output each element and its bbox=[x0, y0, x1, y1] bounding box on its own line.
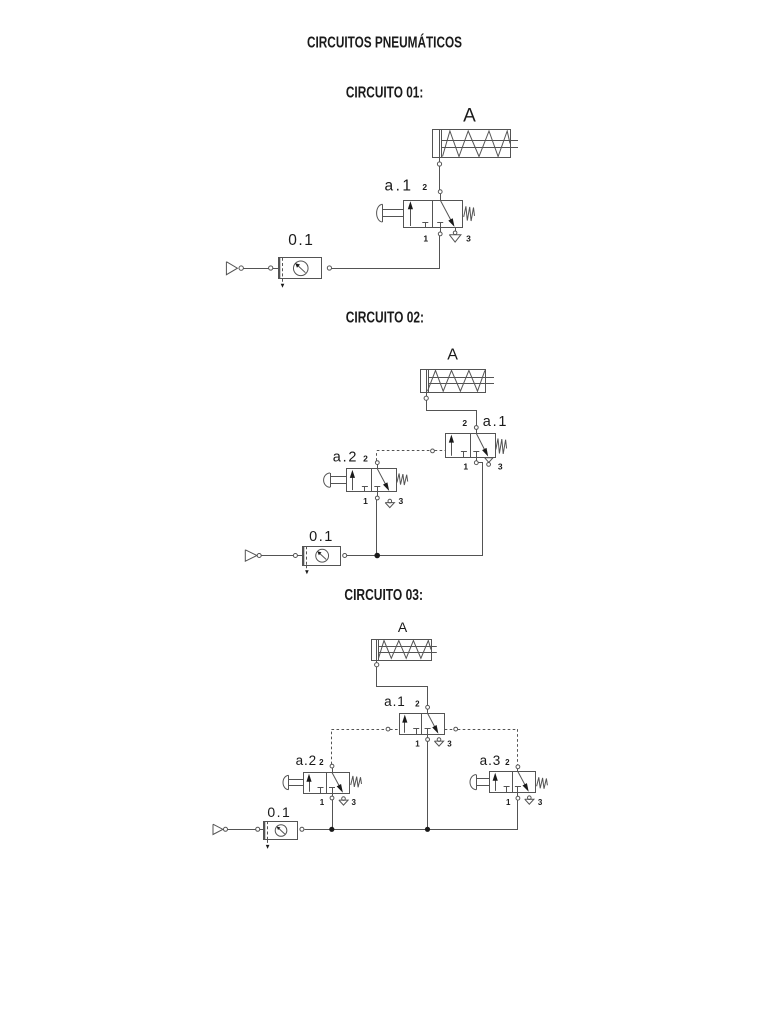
svg-text:a.3: a.3 bbox=[480, 753, 501, 768]
pilot node right (circuit 03) bbox=[454, 727, 458, 731]
valve a.1 port 1 connection node (circuit 03) bbox=[426, 738, 430, 742]
svg-text:3: 3 bbox=[498, 461, 503, 471]
valve a.2 exhaust port 3 (circuit 03) bbox=[339, 797, 348, 805]
valve a.2 (circuit 02) flow arrow 1-2 (left box) bbox=[350, 470, 355, 490]
cylinder A (circuit 01) body bbox=[433, 130, 511, 158]
valve a.2 (circuit 03) body boxes bbox=[304, 773, 350, 794]
cylinder A (circuit 03) body bbox=[372, 639, 432, 660]
valve a.2 (circuit 02) blocked port (right box) bbox=[374, 486, 380, 492]
valve a.2 (circuit 03) exhaust path 2-3 (right box) bbox=[332, 773, 343, 793]
valve a.1 (circuit 02) body boxes bbox=[446, 433, 496, 457]
valve a.3 (circuit 03) blocked port (right box) bbox=[515, 787, 521, 793]
valve a.3 (circuit 03) flow arrow 1-2 (left box) bbox=[493, 773, 498, 791]
valve a.3 (circuit 03) exhaust path 2-3 (right box) bbox=[518, 772, 529, 792]
valve a.2 port 2 connection node (circuit 02) bbox=[375, 461, 379, 465]
valve a.1 port 1 connection node bbox=[438, 232, 442, 236]
svg-text:A: A bbox=[398, 619, 408, 635]
valve a.1 (circuit 02) return spring bbox=[496, 439, 507, 454]
valve a.1 (circuit 01) body boxes bbox=[404, 200, 463, 228]
valve a.3 port1 stub (circuit 03) bbox=[517, 792, 519, 796]
valve a.1 port2 stub bbox=[440, 194, 442, 200]
cylinder A (circuit 02) body bbox=[421, 369, 486, 392]
compressed air supply (circuit 02) bbox=[245, 550, 257, 561]
valve a.2 (circuit 02) push-button actuator bbox=[324, 473, 347, 487]
svg-text:a.2: a.2 bbox=[333, 450, 359, 466]
valve a.1 (circuit 03) blocked port (left box) bbox=[413, 729, 419, 735]
junction node (circuit 02) bbox=[374, 553, 380, 559]
air service unit 0.1 (circuit 02) body bbox=[303, 546, 341, 565]
compressed air supply (circuit 01) bbox=[226, 262, 237, 275]
valve a.2 (circuit 03) flow arrow 1-2 (left box) bbox=[306, 774, 311, 792]
wire valve a.2 port 1 down to bus (circuit 03) bbox=[332, 800, 334, 829]
svg-text:2: 2 bbox=[319, 758, 324, 767]
svg-text:3: 3 bbox=[447, 740, 452, 749]
valve a.1 port 2 connection node bbox=[438, 190, 442, 194]
cylinder A (circuit 01) port stub bbox=[439, 158, 441, 162]
svg-text:0.1: 0.1 bbox=[267, 804, 291, 820]
valve a.2 port1 stub (circuit 03) bbox=[332, 793, 334, 796]
svg-text:2: 2 bbox=[415, 699, 420, 708]
valve a.3 (circuit 03) return spring bbox=[537, 777, 548, 788]
wire valve a.1 port 1 down to bus (circuit 03) bbox=[427, 741, 429, 829]
svg-text:3: 3 bbox=[466, 234, 471, 244]
svg-text:3: 3 bbox=[399, 496, 404, 506]
svg-text:A: A bbox=[463, 106, 476, 127]
valve a.1 (circuit 02) flow arrow 1-2 (left box) bbox=[449, 435, 454, 456]
valve a.1 (circuit 01) push-button actuator bbox=[377, 204, 403, 222]
air service unit 0.1 (circuit 01) regulator dial bbox=[293, 261, 308, 276]
air service unit 0.1 (circuit 03) adjustment dashed line bbox=[266, 821, 270, 849]
cylinder A (circuit 03) return spring bbox=[379, 641, 432, 659]
wire supply to inlet node (circuit 01) bbox=[244, 268, 269, 270]
valve a.2 port2 stub (circuit 03) bbox=[332, 768, 334, 773]
valve a.3 (circuit 03) body boxes bbox=[490, 772, 536, 793]
service unit 0.1 outlet node (circuit 02) bbox=[343, 554, 347, 558]
supply connection node (circuit 03) bbox=[224, 827, 228, 831]
valve a.3 (circuit 03) push-button actuator bbox=[470, 775, 490, 790]
cylinder A (circuit 03) piston rod bbox=[379, 647, 437, 653]
air service unit 0.1 (circuit 02) adjustment dashed line bbox=[305, 546, 309, 574]
valve a.1 port1 stub bbox=[440, 228, 442, 233]
valve a.1 exhaust port 3 (circuit 03) bbox=[434, 738, 443, 746]
valve a.2 port 1 connection node (circuit 03) bbox=[330, 796, 334, 800]
valve a.2 (circuit 02) blocked port (left box) bbox=[362, 486, 368, 492]
wire valve a.2 port 1 down to junction (circuit 02) bbox=[376, 500, 378, 556]
cylinder A (circuit 01) connection node bbox=[437, 162, 441, 166]
svg-text:A: A bbox=[447, 346, 458, 363]
svg-text:2: 2 bbox=[505, 758, 510, 767]
valve a.1 port 2 connection node (circuit 02) bbox=[474, 426, 478, 430]
svg-text:3: 3 bbox=[351, 798, 356, 807]
svg-text:1: 1 bbox=[363, 496, 368, 506]
wire valve a.1 port 1 down to supply bus (circuit 02) bbox=[347, 463, 483, 556]
cylinder A (circuit 02) return spring bbox=[428, 370, 485, 391]
valve a.1 port1 stub (circuit 02) bbox=[476, 457, 478, 461]
valve a.3 port 1 connection node (circuit 03) bbox=[516, 796, 520, 800]
wire supply to inlet node (circuit 03) bbox=[228, 829, 256, 831]
supply bus wire and riser to valve a.3 (circuit 03) bbox=[305, 801, 518, 830]
svg-text:1: 1 bbox=[506, 798, 511, 807]
valve a.3 port2 stub (circuit 03) bbox=[517, 769, 519, 772]
valve a.1 port2 stub (circuit 02) bbox=[476, 429, 478, 433]
supply connection node (circuit 01) bbox=[239, 266, 243, 270]
cylinder A (circuit 01) piston rod bbox=[442, 141, 519, 148]
pilot connection node (circuit 02) bbox=[431, 449, 435, 453]
valve a.1 (circuit 01) blocked port (right box) bbox=[437, 222, 443, 228]
air service unit 0.1 (circuit 01) body bbox=[279, 258, 322, 279]
valve a.1 port1 stub (circuit 03) bbox=[427, 734, 429, 737]
svg-text:CIRCUITO 02:: CIRCUITO 02: bbox=[346, 310, 424, 327]
valve a.1 exhaust silencer port 3 bbox=[449, 228, 461, 243]
valve a.3 exhaust port 3 (circuit 03) bbox=[525, 796, 534, 804]
service unit 0.1 inlet node (circuit 03) bbox=[256, 827, 260, 831]
svg-text:a.2: a.2 bbox=[296, 753, 317, 768]
valve a.2 port2 stub (circuit 02) bbox=[377, 465, 379, 469]
compressed air supply (circuit 03) bbox=[213, 824, 223, 834]
svg-text:a.1: a.1 bbox=[384, 694, 405, 709]
cylinder A (circuit 02) piston rod bbox=[428, 378, 494, 384]
cylinder A (circuit 02) port stub bbox=[426, 392, 428, 396]
air service unit 0.1 (circuit 01) adjustment dashed line bbox=[281, 258, 285, 288]
svg-text:2: 2 bbox=[363, 453, 368, 463]
supply line: valve a.1 port 1 down and left to service unit (circuit 01) bbox=[332, 236, 440, 269]
valve a.1 (circuit 03) body boxes bbox=[400, 713, 445, 734]
valve a.2 (circuit 02) return spring bbox=[397, 474, 408, 486]
cylinder A (circuit 01) return spring bbox=[443, 131, 511, 157]
valve a.2 (circuit 03) return spring bbox=[351, 776, 362, 787]
svg-text:a.1: a.1 bbox=[384, 178, 413, 195]
wire inlet node to service unit (circuit 03) bbox=[260, 829, 264, 831]
valve a.3 (circuit 03) blocked port (left box) bbox=[504, 787, 510, 793]
valve a.2 (circuit 02) exhaust path 2-3 (right box) bbox=[377, 469, 389, 491]
service unit 0.1 outlet node (circuit 01) bbox=[327, 266, 331, 270]
service unit 0.1 outlet node (circuit 03) bbox=[300, 827, 304, 831]
pilot line left (valve a.2 to a.1, circuit 03) bbox=[332, 729, 400, 764]
valve a.1 (circuit 01) exhaust path 2-3 (right box) bbox=[440, 200, 454, 227]
wire inlet node to service unit (circuit 01) bbox=[273, 268, 278, 270]
wire cylinder A to valve a.1 port 2 (circuit 03) bbox=[377, 667, 428, 706]
svg-text:2: 2 bbox=[422, 182, 427, 192]
svg-text:2: 2 bbox=[462, 418, 467, 428]
svg-text:3: 3 bbox=[538, 798, 543, 807]
cylinder A (circuit 03) port stub bbox=[376, 660, 378, 663]
svg-text:1: 1 bbox=[320, 798, 325, 807]
wire cylinder A to valve a.1 port 2 (circuit 01) bbox=[439, 166, 441, 190]
svg-text:0.1: 0.1 bbox=[309, 529, 334, 545]
svg-text:0.1: 0.1 bbox=[288, 232, 314, 249]
valve a.2 port1 stub (circuit 02) bbox=[377, 492, 379, 497]
air service unit 0.1 (circuit 02) regulator dial bbox=[316, 549, 329, 562]
valve a.2 port 1 connection node (circuit 02) bbox=[375, 496, 379, 500]
junction node under valve a.1 (circuit 03) bbox=[425, 827, 430, 832]
svg-text:CIRCUITO 03:: CIRCUITO 03: bbox=[344, 587, 423, 604]
valve a.1 port2 stub (circuit 03) bbox=[427, 709, 429, 713]
air service unit 0.1 (circuit 03) body bbox=[264, 821, 298, 840]
service unit 0.1 inlet node (circuit 02) bbox=[293, 554, 297, 558]
svg-text:1: 1 bbox=[415, 740, 420, 749]
valve a.1 exhaust port 3 (circuit 02) bbox=[485, 458, 493, 467]
valve a.1 (circuit 01) return spring bbox=[464, 206, 475, 221]
valve a.1 (circuit 03) blocked port (right box) bbox=[425, 729, 431, 735]
pilot node left (circuit 03) bbox=[386, 727, 390, 731]
valve a.1 (circuit 01) flow arrow 1-2 (left box) bbox=[408, 201, 413, 226]
svg-text:CIRCUITOS PNEUMÁTICOS: CIRCUITOS PNEUMÁTICOS bbox=[307, 35, 462, 52]
valve a.2 port 2 connection node (circuit 03) bbox=[330, 764, 334, 768]
valve a.2 (circuit 03) push-button actuator bbox=[283, 775, 303, 789]
valve a.1 port 1 connection node (circuit 02) bbox=[474, 461, 478, 465]
wire cylinder A to valve a.1 port 2 (circuit 02) bbox=[427, 401, 477, 426]
cylinder A (circuit 02) connection node bbox=[424, 396, 428, 400]
cylinder A (circuit 03) connection node bbox=[375, 663, 379, 667]
air service unit 0.1 (circuit 03) regulator dial bbox=[275, 825, 287, 837]
supply connection node (circuit 02) bbox=[257, 554, 261, 558]
pilot line right (valve a.3 to a.1, circuit 03) bbox=[445, 729, 518, 765]
svg-text:a.1: a.1 bbox=[483, 414, 509, 430]
svg-text:1: 1 bbox=[423, 234, 428, 244]
pilot line from valve a.2 to valve a.1 (circuit 02) bbox=[377, 451, 446, 461]
valve a.1 (circuit 03) flow arrow 1-2 (left box) bbox=[402, 715, 407, 733]
svg-text:1: 1 bbox=[463, 462, 468, 472]
wire inlet node to service unit (circuit 02) bbox=[297, 555, 302, 557]
junction node under valve a.2 (circuit 03) bbox=[329, 827, 334, 832]
valve a.1 port 2 connection node (circuit 03) bbox=[426, 705, 430, 709]
valve a.2 (circuit 03) blocked port (right box) bbox=[329, 788, 335, 794]
valve a.1 (circuit 02) exhaust path 2-3 (right box) bbox=[476, 433, 488, 456]
wire supply to inlet node (circuit 02) bbox=[261, 555, 293, 557]
service unit 0.1 inlet node (circuit 01) bbox=[269, 266, 273, 270]
valve a.1 (circuit 02) blocked port (left box) bbox=[461, 452, 467, 458]
valve a.2 exhaust port 3 (circuit 02) bbox=[385, 499, 394, 507]
valve a.1 (circuit 01) blocked port (left box) bbox=[422, 222, 428, 228]
valve a.1 (circuit 03) exhaust path 2-3 (right box) bbox=[428, 713, 439, 733]
valve a.3 port 2 connection node (circuit 03) bbox=[516, 765, 520, 769]
valve a.2 (circuit 03) blocked port (left box) bbox=[318, 788, 324, 794]
valve a.1 (circuit 02) blocked port (right box) bbox=[473, 452, 479, 458]
svg-text:CIRCUITO 01:: CIRCUITO 01: bbox=[346, 85, 424, 102]
valve a.2 (circuit 02) body boxes bbox=[347, 469, 397, 492]
